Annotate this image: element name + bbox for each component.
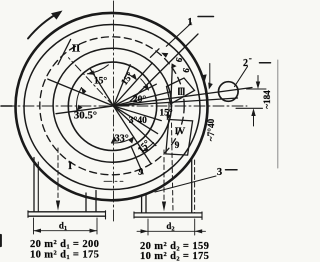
dashed mid circle bbox=[40, 37, 184, 175]
right leg left wall a bbox=[141, 195, 143, 213]
arrowhead 30.5 bottom bbox=[77, 105, 83, 111]
left leg outer wall bbox=[33, 158, 35, 212]
dim arc 20 bbox=[141, 79, 149, 90]
hatched square zone III marker bbox=[178, 88, 185, 96]
d2 extension line right bbox=[194, 219, 196, 235]
svg-text:I: I bbox=[68, 161, 72, 172]
inner shell circle bbox=[24, 25, 200, 190]
arrowhead on outer circle right bbox=[201, 74, 207, 81]
svg-text:20°: 20° bbox=[133, 94, 147, 105]
right leg right wall bbox=[191, 158, 193, 213]
short parallel cut bbox=[150, 49, 159, 58]
radial line -57deg bbox=[114, 106, 151, 163]
radial line 158deg bbox=[48, 79, 114, 106]
d2 dimension line bbox=[137, 230, 206, 232]
dash-dot radial 133deg bbox=[69, 58, 114, 106]
label 3 dash bbox=[226, 169, 238, 171]
cell III outline bbox=[167, 78, 195, 104]
svg-text:3: 3 bbox=[217, 167, 222, 178]
cell IV outline bbox=[166, 120, 193, 156]
radial line -32deg bbox=[114, 106, 158, 134]
arrowhead on dashed circle upper bbox=[161, 53, 168, 58]
dim arc 15 upper-left bbox=[87, 65, 108, 74]
svg-text:15°: 15° bbox=[94, 76, 108, 87]
svg-text:10 m2 d1 = 175: 10 m2 d1 = 175 bbox=[30, 249, 99, 261]
rotation arrow arc bbox=[28, 13, 59, 39]
dashed radial inside IV bbox=[172, 123, 174, 212]
hub circle bbox=[68, 62, 156, 150]
dim arc 33 bbox=[112, 137, 134, 143]
left pipe dashed line bbox=[57, 148, 59, 199]
svg-text:9: 9 bbox=[181, 67, 192, 74]
radial line -17deg bbox=[114, 106, 162, 121]
svg-text:2: 2 bbox=[243, 58, 248, 69]
dim arc 15 bottom bbox=[142, 143, 153, 152]
d1 dimension line bbox=[34, 230, 98, 232]
radial line -43deg bbox=[114, 106, 156, 146]
right pipe dashed line bbox=[163, 150, 165, 200]
d1 extension line left bbox=[33, 218, 35, 234]
left leg inner wall a bbox=[85, 193, 87, 212]
chord line left of cell III bbox=[171, 66, 173, 104]
zone II left cut bbox=[58, 39, 71, 64]
d1 arrowhead right bbox=[90, 229, 98, 233]
dim 184 bottom arrow line bbox=[253, 112, 255, 126]
arrowhead 15B bbox=[142, 148, 149, 152]
arrowhead 30.5 top bbox=[81, 87, 86, 95]
dim arc 15 right bbox=[167, 102, 169, 119]
left base plate end ticks bbox=[28, 211, 106, 219]
svg-text:d1: d1 bbox=[59, 221, 67, 233]
svg-text:IV: IV bbox=[175, 127, 186, 137]
radial line 48deg bbox=[114, 63, 153, 106]
left base plate bbox=[28, 212, 106, 216]
d2 arrowhead left bbox=[141, 229, 149, 233]
d1 extension line right bbox=[96, 218, 98, 234]
label 1 dash bbox=[198, 16, 214, 18]
svg-text:~184: ~184 bbox=[262, 90, 272, 109]
centerline start dash bbox=[1, 105, 12, 107]
left pipe flow arrow bbox=[56, 201, 60, 211]
svg-text:II: II bbox=[72, 43, 81, 55]
right base plate bbox=[134, 213, 202, 217]
dim 184 top arrowhead bbox=[256, 82, 260, 90]
arrowhead on pipe line bbox=[208, 83, 213, 90]
radial line -66deg bbox=[131, 146, 143, 174]
arrowhead 33 right bbox=[129, 136, 135, 143]
dim 184 top arrow line bbox=[257, 76, 259, 87]
svg-text:33°: 33° bbox=[115, 133, 129, 144]
right leg dashed outer line bbox=[194, 160, 196, 213]
small circle 2 bbox=[219, 82, 239, 102]
outer shell circle bbox=[16, 13, 208, 200]
d1 arrowhead left bbox=[34, 229, 42, 233]
dim 184 bottom arrowhead bbox=[251, 108, 255, 116]
radial line 122deg bbox=[90, 68, 114, 106]
arrowhead 15UL bbox=[87, 70, 95, 75]
arrowhead 15R bbox=[166, 114, 171, 120]
svg-text:30.5°: 30.5° bbox=[74, 110, 97, 122]
left edge ink blob bbox=[0, 235, 2, 246]
rotation arrowhead bbox=[51, 11, 63, 20]
leader line 1 bbox=[166, 23, 191, 46]
d2 extension line left bbox=[147, 219, 149, 235]
svg-text:d2: d2 bbox=[166, 221, 174, 233]
arrowhead on dashed circle lower bbox=[171, 63, 176, 68]
vertical centerline bbox=[113, 1, 115, 222]
radial line 68deg bbox=[114, 65, 131, 106]
bottom center cross tick bbox=[104, 180, 123, 182]
left leg outer wall inner line bbox=[37, 162, 39, 212]
arrowhead 20 bbox=[143, 84, 149, 91]
left leg inner wall b bbox=[95, 191, 97, 212]
arrowhead 33 left bbox=[111, 137, 117, 144]
lower pipe line 3.7deg bbox=[114, 98, 238, 106]
svg-text:3°40: 3°40 bbox=[129, 115, 147, 126]
dim 184 top tick bbox=[247, 88, 267, 90]
dim arc 15 tilted bbox=[128, 74, 136, 79]
svg-text:9: 9 bbox=[174, 57, 185, 64]
dim 7-40 extension line bbox=[209, 64, 211, 84]
long diagonal cut bbox=[130, 34, 198, 102]
right base plate end ticks bbox=[134, 212, 202, 220]
dim arc 30.5 bbox=[77, 88, 82, 111]
svg-text:~7°40: ~7°40 bbox=[206, 118, 217, 141]
upper pipe line 7.6deg bbox=[56, 88, 252, 114]
svg-text:10 m2 d2 = 175: 10 m2 d2 = 175 bbox=[140, 251, 209, 262]
stray mark near label 2 bbox=[250, 58, 252, 60]
leader line 2 bbox=[235, 67, 248, 87]
dim 184 bottom ref line bbox=[236, 107, 263, 109]
cell ring inner circle bbox=[53, 48, 171, 162]
svg-text:9: 9 bbox=[175, 141, 180, 151]
radial line 27deg bbox=[114, 84, 157, 106]
horizontal centerline bbox=[4, 105, 247, 107]
arrowhead 15T bbox=[131, 74, 137, 80]
label 2 dash bbox=[260, 62, 271, 64]
right edge scan line bbox=[277, 60, 279, 168]
radial line 14deg bbox=[114, 92, 171, 106]
right leg left wall b bbox=[145, 194, 147, 213]
right pipe flow arrow bbox=[162, 202, 166, 212]
svg-text:1: 1 bbox=[187, 17, 192, 28]
svg-text:15°: 15° bbox=[159, 108, 173, 119]
leader line 3 bbox=[155, 176, 216, 192]
d2 arrowhead right bbox=[195, 229, 203, 233]
